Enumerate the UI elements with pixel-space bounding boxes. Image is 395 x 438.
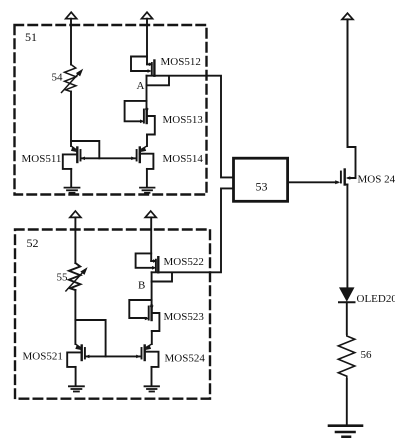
wire (150, 217, 152, 261)
dashed box 52 (15, 230, 210, 399)
svg-text:MOS511: MOS511 (22, 153, 62, 165)
wire gate loop of MOS521 (75, 320, 105, 356)
wire (70, 92, 72, 147)
node A tab (147, 76, 170, 86)
svg-text:55: 55 (57, 272, 69, 284)
svg-text:MOS523: MOS523 (164, 311, 205, 323)
power arrow (VDD) left of box 52 (70, 211, 81, 217)
svg-text:MOS513: MOS513 (163, 114, 204, 126)
svg-text:54: 54 (52, 72, 64, 84)
transistor MOS512 (131, 57, 154, 76)
wire shared gate line (81, 157, 135, 159)
transistor MOS514 (137, 146, 154, 187)
svg-text:A: A (137, 80, 145, 92)
wire shared gate line (85, 355, 140, 357)
node B tab (152, 272, 172, 281)
svg-text:51: 51 (25, 30, 37, 44)
node A wire to block 53 (147, 76, 234, 178)
transistor MOS522 (136, 253, 159, 272)
svg-text:MOS 24: MOS 24 (358, 174, 395, 186)
svg-text:56: 56 (361, 349, 373, 361)
wire node B down (151, 282, 153, 306)
resistor 55 (variable) (69, 263, 81, 290)
ground (bottom right) (329, 426, 362, 437)
svg-text:53: 53 (256, 180, 268, 194)
ground (box 52 right) (145, 386, 160, 391)
wire (74, 217, 76, 263)
power arrow (VDD) right of box 51 (142, 12, 153, 19)
svg-text:MOS514: MOS514 (163, 153, 204, 165)
block 53 (234, 158, 288, 201)
svg-text:MOS522: MOS522 (164, 256, 204, 268)
wire (74, 290, 76, 344)
wire node A down (146, 85, 148, 109)
transistor MOS524 (142, 344, 159, 386)
transistor MOS513 (125, 101, 155, 146)
svg-text:52: 52 (27, 236, 39, 250)
ground (box 51 right) (140, 188, 155, 193)
svg-text:OLED20: OLED20 (357, 293, 395, 305)
wire (146, 19, 148, 65)
transistor MOS 24 (341, 147, 356, 288)
dashed box 51 (15, 25, 207, 195)
svg-text:MOS524: MOS524 (165, 353, 206, 365)
wire block 53 to MOS24 gate (288, 181, 338, 183)
svg-text:MOS512: MOS512 (161, 56, 201, 68)
wire (346, 379, 348, 426)
transistor MOS523 (129, 300, 159, 344)
power arrow (VDD) left of box 51 (66, 12, 77, 19)
svg-text:MOS521: MOS521 (23, 351, 63, 363)
resistor 56 (338, 334, 355, 379)
power arrow (VDD) right column (342, 13, 353, 19)
diode OLED20 (339, 288, 355, 334)
node B wire to block 53 (152, 188, 234, 272)
wire gate loop of MOS511 (71, 141, 99, 158)
transistor MOS511 (63, 146, 81, 187)
ground (box 52 left) (69, 386, 84, 391)
resistor 54 (variable) (65, 65, 77, 92)
svg-text:B: B (138, 280, 145, 292)
transistor MOS521 (67, 344, 85, 386)
wire (347, 19, 349, 147)
wire (70, 19, 72, 65)
ground (box 51 left) (65, 188, 80, 193)
power arrow (VDD) right of box 52 (145, 211, 156, 217)
